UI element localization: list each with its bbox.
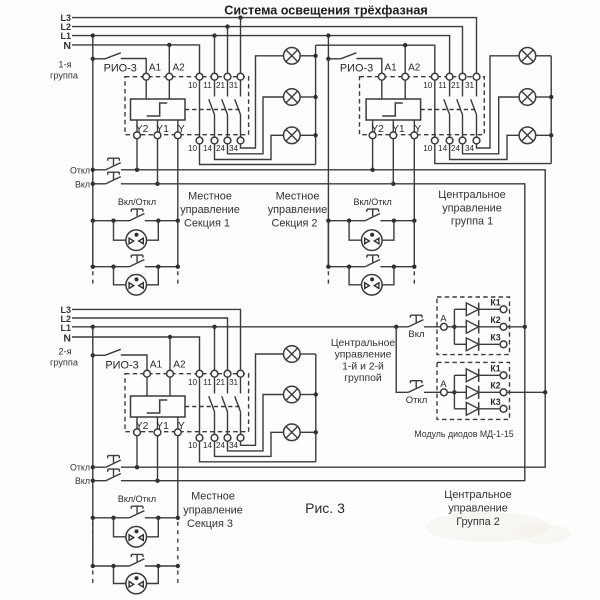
wire diode VD1 to terminal К1 xyxy=(479,374,500,376)
svg-text:11: 11 xyxy=(438,81,447,90)
svg-text:N: N xyxy=(63,332,71,344)
junction Y1 K1 on Вкл line xyxy=(155,182,159,186)
svg-text:Модуль диодов МД-1-15: Модуль диодов МД-1-15 xyxy=(414,429,513,439)
svg-text:РИО-3: РИО-3 xyxy=(340,63,373,75)
diode VD3 xyxy=(466,338,478,351)
mechanical link dashed xyxy=(185,109,241,111)
local line2 left xyxy=(328,266,365,268)
local line1 right xyxy=(380,220,414,222)
lamp EL5 xyxy=(519,89,536,106)
svg-text:14: 14 xyxy=(203,144,213,153)
svg-text:Центральное: Центральное xyxy=(438,189,505,201)
junction Y2 K1 on Откл line xyxy=(135,168,139,172)
wire L2 to terminal 21 of K1 xyxy=(227,27,229,74)
diode VD1 xyxy=(466,369,478,382)
terminal К3 xyxy=(500,405,507,412)
junction bus x line2 xyxy=(91,564,95,568)
svg-text:группа 1: группа 1 xyxy=(451,216,493,228)
junction bus1 lamp EL2 xyxy=(313,95,317,99)
svg-text:группой: группой xyxy=(344,373,382,384)
pushbutton local 2 xyxy=(129,554,144,566)
junction bus3 lamp EL9 xyxy=(314,430,318,434)
wire Y1 K3 to Вкл line xyxy=(157,436,159,481)
contact 31-34 with blade xyxy=(235,80,241,137)
mechanical link dashed xyxy=(185,406,241,408)
svg-text:11: 11 xyxy=(203,378,212,387)
svg-text:10: 10 xyxy=(188,144,198,153)
wire coil to Y1 xyxy=(157,120,159,132)
junction bus2 lamp EL5 xyxy=(549,95,553,99)
continuation dashes left below xyxy=(327,271,329,284)
wire module2 К2 to Откл bus xyxy=(507,391,545,393)
wire L3 bus bottom xyxy=(72,309,241,370)
terminal Y1 xyxy=(390,132,397,139)
wire contact 14 to lamp EL3 xyxy=(215,135,284,159)
wire A1 to coil xyxy=(146,377,148,396)
wire contact 24 K2 to lamp EL5 xyxy=(463,97,520,154)
svg-text:управление: управление xyxy=(448,503,508,515)
svg-text:управление: управление xyxy=(335,350,392,361)
junction phase bus3 x Вкл button SB4 xyxy=(91,479,95,483)
wire diode VD3 to terminal К3 xyxy=(479,408,500,410)
terminal К2 xyxy=(500,389,507,396)
svg-text:Откл: Откл xyxy=(70,165,90,175)
wire lamp EL5 to bus2 xyxy=(536,96,552,98)
junction line1 right end xyxy=(412,219,416,223)
svg-text:24: 24 xyxy=(216,144,226,153)
terminal 31 xyxy=(473,73,480,80)
svg-text:24: 24 xyxy=(216,441,226,450)
terminal Y1 xyxy=(154,429,161,436)
junction loop2 left xyxy=(347,265,351,269)
wire Y1 K1 to Вкл line xyxy=(157,139,159,184)
junction L1b x Откл branch xyxy=(394,325,398,329)
wire contact 14 K2 to lamp EL6 xyxy=(450,135,519,159)
continuation dashes right mid xyxy=(177,522,179,562)
svg-text:К1: К1 xyxy=(490,363,500,373)
wire coil to Y2 xyxy=(372,120,374,132)
svg-text:31: 31 xyxy=(229,81,239,90)
svg-text:управление: управление xyxy=(180,204,240,216)
wire A to anode bus xyxy=(447,326,454,328)
local line2 left xyxy=(93,266,130,268)
svg-text:10: 10 xyxy=(188,378,198,387)
wire terminal 10 K3 bottom to lamp neutral bus 3 xyxy=(200,441,316,462)
pushbutton SB3 Откл xyxy=(106,456,121,468)
wall switch loop 2 xyxy=(114,267,126,285)
wire neutral chain to block2 terminal 10 xyxy=(316,45,435,73)
junction bus x line2 xyxy=(326,265,330,269)
svg-text:21: 21 xyxy=(451,81,461,90)
wire Откл branch riser xyxy=(396,327,408,393)
svg-text:Секция 3: Секция 3 xyxy=(187,518,233,530)
svg-text:Вкл/Откл: Вкл/Откл xyxy=(118,197,156,207)
continuation dashes left below xyxy=(92,571,94,584)
diode VD1 xyxy=(466,303,478,316)
svg-text:Местное: Местное xyxy=(276,190,320,202)
wire diode VD2 to terminal К2 xyxy=(479,326,500,328)
wire A2 to coil xyxy=(168,80,170,99)
svg-text:34: 34 xyxy=(465,144,475,153)
svg-text:Вкл: Вкл xyxy=(75,476,90,486)
contact 11-14 with blade xyxy=(209,80,215,137)
wire diode VD1 to terminal К1 xyxy=(479,308,500,310)
wire coil to Y xyxy=(177,417,179,429)
wire bus3 to Откл button SB3 xyxy=(93,466,106,468)
wire L1 bus bottom to central Вкл switch xyxy=(72,326,409,328)
terminal A1 xyxy=(144,370,151,377)
terminal Y1 xyxy=(154,132,161,139)
junction line2 right end xyxy=(412,265,416,269)
wire lamp EL4 to bus2 xyxy=(536,55,552,57)
terminal A1 xyxy=(143,73,150,80)
terminal 24 xyxy=(224,434,231,441)
junction bus1 lamp EL1 xyxy=(313,54,317,58)
terminal 11 xyxy=(446,73,453,80)
junction phase bus3 x Откл button SB3 xyxy=(91,465,95,469)
terminal К2 xyxy=(500,323,507,330)
wire QS1 to A1 of K1 xyxy=(121,59,146,74)
local line1 right xyxy=(145,517,178,519)
wire L1 bus top xyxy=(72,36,450,74)
svg-text:РИО-3: РИО-3 xyxy=(104,62,137,74)
diode VD3 xyxy=(466,402,478,415)
svg-text:21: 21 xyxy=(216,81,226,90)
svg-text:11: 11 xyxy=(203,81,212,90)
diode VD2 xyxy=(466,320,478,333)
svg-text:Рис. 3: Рис. 3 xyxy=(305,500,345,516)
local line1 left xyxy=(93,220,130,222)
wire terminal 10 bottom to lamp neutral bus 1 xyxy=(200,144,316,165)
junction L1b x QS3 bus xyxy=(91,325,95,329)
terminal Y2 xyxy=(134,429,141,436)
svg-text:34: 34 xyxy=(229,441,239,450)
terminal 14 xyxy=(211,137,218,144)
junction Откл bus x К2 module2 xyxy=(543,390,547,394)
junction L1 x QS1 bus xyxy=(91,33,95,37)
wire L1 tap to disconnect switch QS1 xyxy=(92,36,94,59)
lamp EL6 xyxy=(519,127,536,144)
terminal 10 bottom xyxy=(431,137,438,144)
anode bus xyxy=(453,309,455,344)
contact 11-14 with blade xyxy=(209,377,215,434)
wire Nb to A2 of K3 xyxy=(168,335,172,339)
svg-text:10: 10 xyxy=(188,441,198,450)
terminal 21 xyxy=(224,73,231,80)
svg-text:21: 21 xyxy=(216,378,226,387)
svg-text:N: N xyxy=(63,40,71,52)
wire diode VD3 to terminal К3 xyxy=(479,343,500,345)
continuation dashes left mid xyxy=(92,522,94,562)
wire L1b tap to disconnect switch QS3 xyxy=(92,327,94,356)
terminal Y xyxy=(174,429,181,436)
lamp EL2 xyxy=(284,89,301,106)
wire SB6 to module2 A terminal xyxy=(424,391,441,393)
local bus segment line1-line2 right xyxy=(413,221,415,267)
wire Y riser to local line1 xyxy=(413,139,415,221)
terminal 10 top xyxy=(196,370,203,377)
wire contact 24 to lamp EL2 xyxy=(228,97,284,154)
junction bus x line1 xyxy=(91,516,95,520)
wall switch S2 circle xyxy=(126,573,147,594)
coil hysteresis symbol xyxy=(147,103,168,116)
wall switch loop 2 xyxy=(114,566,126,584)
svg-text:А2: А2 xyxy=(172,63,185,74)
wire coil to Y2 xyxy=(136,120,138,132)
svg-text:Местное: Местное xyxy=(191,491,235,503)
wall switch loop 1 xyxy=(114,518,126,537)
junction loop1 right xyxy=(156,219,160,223)
junction QS2 branch xyxy=(326,57,330,61)
terminal 21 xyxy=(459,73,466,80)
junction bus x line2 xyxy=(91,265,95,269)
local line2 right xyxy=(380,266,414,268)
wall switch S1 circle xyxy=(126,230,147,251)
pushbutton SB2 Вкл xyxy=(106,172,121,184)
svg-text:14: 14 xyxy=(203,441,213,450)
lamp EL4 xyxy=(519,48,536,65)
junction L1b at terminal 11 of K3 xyxy=(212,325,216,329)
junction QS1 branch xyxy=(91,57,95,61)
svg-text:10: 10 xyxy=(423,144,433,153)
relay K dashed enclosure xyxy=(125,77,249,135)
svg-text:31: 31 xyxy=(465,81,475,90)
svg-text:Группа 2: Группа 2 xyxy=(456,516,500,528)
junction loop2 left xyxy=(111,564,115,568)
relay K coil box xyxy=(131,99,186,120)
diode module dashed box xyxy=(437,297,510,355)
junction line2 right end xyxy=(176,265,180,269)
terminal 11 xyxy=(211,73,218,80)
contact 31-34 with blade xyxy=(235,377,241,434)
terminal A2 xyxy=(402,73,409,80)
junction loop2 right xyxy=(156,564,160,568)
local bus segment line1-line2 left xyxy=(327,221,329,267)
contact 21-24 with blade xyxy=(222,80,228,137)
wall switch loop 1 xyxy=(349,221,361,241)
terminal 34 xyxy=(237,434,244,441)
terminal 31 xyxy=(237,370,244,377)
relay K dashed enclosure xyxy=(125,374,249,432)
wire coil to Y1 xyxy=(392,120,394,132)
wall switch loop 2 xyxy=(349,267,361,285)
wall switch S1 circle xyxy=(126,527,147,548)
svg-text:А: А xyxy=(440,314,447,325)
wall switch S2 circle xyxy=(126,275,147,296)
wire L2 bus top xyxy=(72,27,463,74)
central switch SB6 Откл xyxy=(409,381,424,393)
junction loop2 right xyxy=(156,265,160,269)
svg-text:управление: управление xyxy=(183,504,243,516)
wire L2 bus bottom xyxy=(72,318,228,370)
terminal 21 xyxy=(224,370,231,377)
wire A1 to coil xyxy=(145,80,147,99)
wire L3 to terminal 31 of K1 xyxy=(240,18,242,74)
terminal A1 xyxy=(378,73,385,80)
wall switch S1 circle xyxy=(362,230,383,251)
wire Y riser to local line1 xyxy=(177,436,179,518)
svg-text:1-я: 1-я xyxy=(58,60,71,70)
svg-text:РИО-3: РИО-3 xyxy=(105,360,138,372)
coil hysteresis symbol xyxy=(382,103,403,116)
svg-text:Местное: Местное xyxy=(188,190,232,202)
wire diode VD2 to terminal К2 xyxy=(479,391,500,393)
svg-text:Вкл: Вкл xyxy=(408,329,424,340)
junction QS3 branch xyxy=(91,353,95,357)
lamp EL8 xyxy=(284,386,301,403)
wire SB5 to module A1 terminal xyxy=(424,326,441,328)
junction bus1 lamp EL3 xyxy=(313,133,317,137)
junction Y1 K3 on Вкл line xyxy=(155,479,159,483)
svg-text:К3: К3 xyxy=(490,332,500,342)
wire lamp EL9 to bus3 xyxy=(300,431,316,433)
terminal 10 top xyxy=(431,73,438,80)
wire anode to diode VD2 xyxy=(454,326,466,328)
terminal Y2 xyxy=(369,132,376,139)
svg-text:Секция 1: Секция 1 xyxy=(184,218,230,230)
wall switch loop 1 xyxy=(114,221,126,241)
wire contact 34 K2 to lamp EL4 xyxy=(477,56,520,148)
junction line2 right end xyxy=(176,564,180,568)
terminal К1 xyxy=(500,372,507,379)
svg-text:А1: А1 xyxy=(149,63,162,74)
terminal 10 bottom xyxy=(196,434,203,441)
junction loop1 left xyxy=(111,219,115,223)
contact 11-14 with blade xyxy=(444,80,450,137)
junction bus3 lamp EL8 xyxy=(314,392,318,396)
terminal К1 xyxy=(500,306,507,313)
wire lamp EL3 to bus xyxy=(300,134,316,136)
wire lamp EL1 to bus xyxy=(300,55,316,57)
wire contact 24 K3 to lamp EL8 xyxy=(228,395,284,451)
contact feed-through 10 xyxy=(199,80,201,137)
continuation dashes right below xyxy=(177,271,179,284)
junction Y1 K2 on Вкл line xyxy=(391,182,395,186)
terminal К3 xyxy=(500,341,507,348)
local line1 right xyxy=(145,220,178,222)
junction bus x line1 xyxy=(326,219,330,223)
wall switch S2 circle xyxy=(362,275,383,296)
terminal Y xyxy=(174,132,181,139)
terminal 34 xyxy=(473,137,480,144)
contact 21-24 with blade xyxy=(457,80,463,137)
svg-text:Вкл/Откл: Вкл/Откл xyxy=(353,197,391,207)
local bus segment line1-line2 right xyxy=(177,221,179,267)
svg-text:Центральное: Центральное xyxy=(331,338,396,349)
phase control bus 2 riser xyxy=(327,59,329,267)
wire Y2 K3 to Откл line xyxy=(136,436,138,468)
wire A1 to coil xyxy=(381,80,383,99)
terminal 14 xyxy=(446,137,453,144)
disconnect switch QS3 xyxy=(93,354,105,356)
contact feed-through 10 xyxy=(199,377,201,434)
junction L1 at terminal 11 of K1 xyxy=(212,33,216,37)
pushbutton local 1 xyxy=(129,209,144,221)
wire QS3 to A1 of K3 xyxy=(121,355,147,370)
contact feed-through 10 xyxy=(434,80,436,137)
disconnect switch QS1 xyxy=(93,58,105,60)
junction phase bus x Откл button SB1 xyxy=(91,168,95,172)
junction loop2 right xyxy=(392,265,396,269)
wire coil to Y1 xyxy=(157,417,159,429)
wire coil to Y xyxy=(177,120,179,132)
local line2 right xyxy=(145,565,178,567)
junction anode bus xyxy=(452,390,456,394)
wire A2 to coil xyxy=(404,80,406,99)
Откл line (net Y2) to central bus xyxy=(121,170,545,467)
lamp neutral bus group2 xyxy=(550,56,552,164)
junction bus2 lamp EL6 xyxy=(549,133,553,137)
wire neutral chain to A2 of K2 xyxy=(404,45,406,73)
lamp neutral bus group1 xyxy=(315,45,317,164)
svg-text:группа: группа xyxy=(50,357,79,367)
wire lamp EL6 to bus2 xyxy=(536,134,552,136)
terminal 14 xyxy=(211,434,218,441)
wire N bus top to terminal 10 of K1 xyxy=(72,45,200,73)
junction loop1 left xyxy=(347,219,351,223)
svg-text:К2: К2 xyxy=(490,380,500,390)
junction L1 x QS2 bus xyxy=(326,33,330,37)
anode bus xyxy=(453,375,455,409)
relay K coil box xyxy=(366,99,421,120)
disconnect switch QS2 xyxy=(328,58,340,60)
svg-text:Откл: Откл xyxy=(70,463,90,473)
svg-text:Система освещения трёхфазная: Система освещения трёхфазная xyxy=(224,4,428,18)
junction loop1 right xyxy=(392,219,396,223)
wire bus to Вкл button SB2 xyxy=(93,183,106,185)
coil hysteresis symbol xyxy=(147,400,168,413)
svg-text:К3: К3 xyxy=(490,397,500,407)
wire N bus bottom to terminal 10 of K3 xyxy=(72,337,200,370)
contact 21-24 with blade xyxy=(222,377,228,434)
wire coil to Y xyxy=(413,120,415,132)
wire lamp EL8 to bus3 xyxy=(300,394,316,396)
faint watermark smudge (decor skip-label) background blob xyxy=(425,512,549,542)
wire terminal 10 K2 bottom to lamp neutral bus 2 xyxy=(435,144,551,164)
wire lamp EL7 to bus3 xyxy=(300,353,316,355)
terminal 34 xyxy=(237,137,244,144)
terminal Y2 xyxy=(134,132,141,139)
wire Y riser to local line1 xyxy=(177,139,179,221)
terminal 31 xyxy=(237,73,244,80)
wire anode to diode VD1 xyxy=(454,308,466,310)
junction L3 at terminal 31 of K1 xyxy=(238,15,242,19)
wire anode to diode VD3 xyxy=(454,408,466,410)
wire L1 to terminal 11 of K1 xyxy=(214,36,216,74)
svg-text:Вкл/Откл: Вкл/Откл xyxy=(118,494,156,504)
wire contact 34 to lamp EL1 xyxy=(241,56,284,148)
wire lamp EL2 to bus xyxy=(300,96,316,98)
junction loop1 left xyxy=(111,516,115,520)
terminal A2 xyxy=(166,73,173,80)
local line1 left xyxy=(328,220,365,222)
wire anode to diode VD1 xyxy=(454,374,466,376)
relay K dashed enclosure xyxy=(360,77,485,135)
terminal 24 xyxy=(459,137,466,144)
junction loop2 left xyxy=(111,265,115,269)
wire A2 to coil xyxy=(169,377,171,396)
lamp EL9 xyxy=(284,424,301,441)
central switch SB5 Вкл xyxy=(409,315,424,327)
pushbutton local 1 xyxy=(129,506,144,518)
contact 31-34 with blade xyxy=(471,80,477,137)
mechanical link dashed xyxy=(421,109,477,111)
terminal 10 top xyxy=(196,73,203,80)
terminal 11 xyxy=(211,370,218,377)
terminal Y xyxy=(411,132,418,139)
svg-text:L1: L1 xyxy=(60,323,71,333)
module terminal A xyxy=(441,389,448,396)
